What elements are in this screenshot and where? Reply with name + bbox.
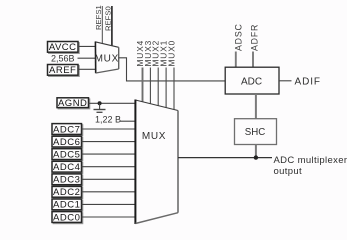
pin box AREF <box>48 65 80 77</box>
wire REFS0 line <box>111 6 113 46</box>
pin box ADC2 <box>52 186 83 198</box>
wire MUX1 line <box>165 68 167 108</box>
svg-text:SHC: SHC <box>245 127 265 138</box>
svg-text:AREF: AREF <box>49 65 76 76</box>
svg-text:ADFR: ADFR <box>249 24 259 51</box>
svg-text:MUX: MUX <box>95 53 119 64</box>
svg-text:ADC6: ADC6 <box>53 137 80 148</box>
wire ADC6 to big mux <box>82 141 137 143</box>
wire MUX3 line <box>149 68 151 104</box>
wire mux output line <box>178 157 272 159</box>
svg-text:ADC5: ADC5 <box>53 149 80 160</box>
mux U1 reference MUX <box>95 42 119 74</box>
pin box ADC1 <box>52 199 83 211</box>
svg-text:ADC multiplexer: ADC multiplexer <box>274 155 347 166</box>
block SHC <box>235 119 277 145</box>
wire SHC to output line <box>255 145 257 158</box>
svg-text:ADC4: ADC4 <box>53 162 80 173</box>
wire MUX4 line <box>142 68 144 103</box>
wire ADC0 to big mux <box>82 216 137 218</box>
wire ADC7 to big mux <box>82 128 137 130</box>
junction dot <box>254 155 258 159</box>
ground symbol <box>94 101 106 112</box>
wire ADC to ADIF <box>279 80 292 82</box>
svg-text:2,56B: 2,56B <box>51 53 75 63</box>
wire MUX0 line <box>173 68 175 110</box>
svg-text:REFS0: REFS0 <box>104 6 113 31</box>
pin box ADC4 <box>52 161 83 173</box>
wire ADC1 to big mux <box>82 203 137 205</box>
wire AVCC to ref mux <box>78 45 96 47</box>
wire AGND to big mux <box>89 102 137 104</box>
wire ADC2 to big mux <box>82 191 137 193</box>
svg-text:MUX: MUX <box>142 131 166 142</box>
svg-text:ADC1: ADC1 <box>53 200 80 211</box>
pin box ADC0 <box>52 212 83 224</box>
pin box ADC6 <box>52 136 83 148</box>
wire ADC4 to big mux <box>82 166 137 168</box>
wire ADC3 to big mux <box>82 178 137 180</box>
wire ADFR line <box>252 52 254 68</box>
mux U2 channel MUX <box>135 100 178 225</box>
wire REFS1 line <box>101 6 103 44</box>
pin box AVCC <box>48 42 80 54</box>
pin box ADC7 <box>52 124 83 136</box>
svg-text:ADC0: ADC0 <box>53 212 80 223</box>
wire ref mux output to ADC <box>119 58 226 81</box>
label ADC multiplexer output <box>274 155 347 177</box>
wire ADC to SHC <box>255 94 257 119</box>
pin box ADC5 <box>52 149 83 161</box>
wire 2,56B to ref mux <box>78 57 96 59</box>
svg-text:ADC: ADC <box>241 76 262 87</box>
svg-text:AGND: AGND <box>58 98 87 109</box>
svg-text:MUX0: MUX0 <box>166 40 176 67</box>
svg-text:1,22 B: 1,22 B <box>95 114 121 124</box>
block ADC <box>225 67 279 94</box>
svg-text:output: output <box>274 166 303 177</box>
svg-text:ADIF: ADIF <box>295 77 321 88</box>
wire ADSC line <box>235 52 237 68</box>
wire MUX2 line <box>157 68 159 106</box>
svg-text:ADC2: ADC2 <box>53 187 80 198</box>
svg-text:ADC7: ADC7 <box>53 124 80 135</box>
wire 1,22 B to big mux <box>120 120 136 122</box>
pin box AGND <box>57 98 90 109</box>
svg-text:REFS1: REFS1 <box>94 5 103 30</box>
wire AREF to ref mux <box>78 68 96 70</box>
svg-text:ADSC: ADSC <box>233 23 243 51</box>
svg-text:ADC3: ADC3 <box>53 175 80 186</box>
pin box ADC3 <box>52 174 83 186</box>
svg-text:AVCC: AVCC <box>49 42 77 53</box>
wire ADC5 to big mux <box>82 153 137 155</box>
